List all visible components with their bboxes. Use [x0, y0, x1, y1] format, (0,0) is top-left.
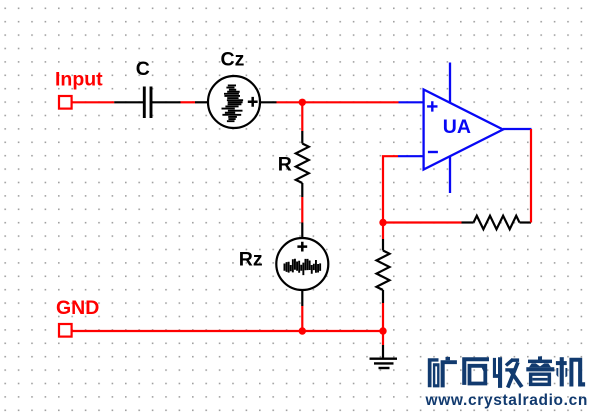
wire R3 top lead: [382, 239, 384, 251]
wire R2 feedback left lead: [462, 221, 474, 223]
svg-text:Input: Input: [55, 68, 103, 90]
svg-text:R: R: [278, 153, 292, 175]
wire R to Rz red: [301, 197, 303, 223]
logo text crystalradio chinese: [428, 357, 457, 388]
wire R3 to ground rail red: [382, 303, 384, 331]
wire input rail red: [72, 101, 115, 103]
junction node A: [299, 99, 306, 106]
label UA: [443, 116, 471, 138]
label Input: [55, 68, 103, 90]
label Cz: [221, 48, 245, 70]
junction node GND-Rz: [299, 327, 306, 334]
wire op-amp plus pin stub: [399, 101, 424, 103]
wire op-amp output stub: [503, 128, 532, 130]
wire minus to feedback red: [383, 156, 398, 222]
wire Rz bottom lead: [301, 290, 303, 306]
ground: [370, 345, 398, 368]
logo text url: [425, 392, 589, 409]
wire op-amp top power pin: [449, 63, 451, 104]
wire output to feedback red: [530, 129, 532, 223]
wire Rz to ground rail red: [301, 306, 303, 331]
resistor R2 feedback: [474, 216, 520, 229]
resistor R: [296, 144, 309, 184]
wire R3 bottom lead: [382, 290, 384, 303]
wire op-amp bottom power pin: [449, 156, 451, 193]
label R: [278, 153, 292, 175]
noise source Rz: [276, 238, 328, 290]
wire feedback left red: [383, 221, 462, 223]
label GND: [56, 297, 99, 319]
wire R top lead: [301, 131, 303, 144]
capacitor C: [144, 87, 151, 119]
svg-text:GND: GND: [56, 297, 99, 319]
op-amp U1: [424, 90, 503, 170]
wire red segment C to Cz: [181, 101, 196, 103]
port GND terminal: [59, 324, 72, 337]
wire ground stub red: [382, 331, 384, 345]
wire node B to R3 red: [382, 223, 384, 240]
wire R2 feedback right lead: [520, 221, 532, 223]
svg-text:Rz: Rz: [239, 248, 263, 270]
junction node GND-R2: [379, 327, 386, 334]
wire ground rail red: [72, 330, 383, 332]
wire capacitor C right lead: [152, 101, 181, 103]
resistor R3: [377, 251, 390, 291]
wire Cz right lead: [260, 101, 277, 103]
svg-text:www.crystalradio.cn: www.crystalradio.cn: [425, 392, 589, 409]
label Rz: [239, 248, 263, 270]
wire Cz left lead: [195, 101, 208, 103]
wire capacitor C left lead: [114, 101, 143, 103]
svg-text:C: C: [136, 58, 150, 80]
svg-text:UA: UA: [443, 116, 471, 138]
port Input terminal: [59, 96, 72, 109]
wire node A down to R: [301, 102, 303, 131]
wire R bottom lead: [301, 183, 303, 197]
wire op-amp minus pin stub: [398, 155, 424, 157]
junction node B: [379, 219, 386, 226]
svg-text:Cz: Cz: [221, 48, 245, 70]
wire Rz top lead: [301, 223, 303, 239]
wire node to op-amp plus red: [277, 101, 399, 103]
noise source Cz: [208, 76, 260, 128]
label C: [136, 58, 150, 80]
